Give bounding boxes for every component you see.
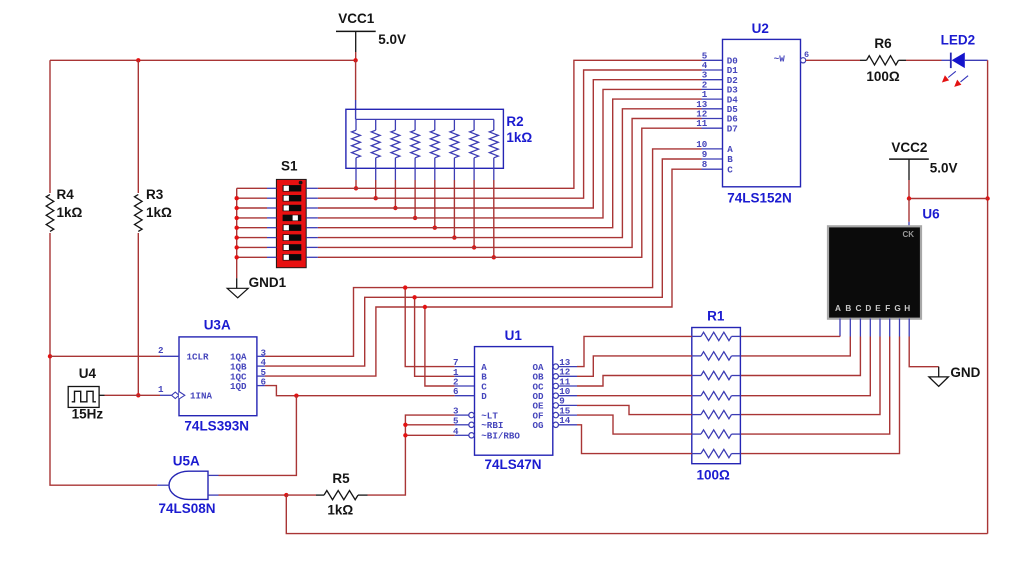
ground GND1: [227, 278, 248, 298]
pin stub S1 left 3: [267, 207, 276, 209]
pin stub U3A 1QC: [257, 375, 265, 377]
svg-text:5.0V: 5.0V: [378, 32, 406, 47]
svg-text:~BI/RBO: ~BI/RBO: [481, 431, 520, 442]
wire net D2 row to U2 pin: [318, 80, 702, 208]
svg-text:C: C: [855, 304, 861, 313]
junction R4 / 1CLR net: [48, 354, 52, 358]
svg-text:R5: R5: [332, 471, 350, 486]
wire net D4 row to U2 pin: [318, 99, 702, 228]
pin stub U1 ~LT: [455, 414, 469, 416]
wire S1 ground bus: [236, 188, 238, 278]
junction R5 node / bottom rail: [284, 493, 288, 497]
wire bottom rail to LED return: [286, 495, 987, 533]
junction R2 col 1 on row 1: [354, 186, 358, 190]
svg-text:U3A: U3A: [204, 318, 231, 333]
wire S1 left pin 8 to ground bus: [237, 256, 267, 258]
pin stub U2 D2: [702, 79, 723, 81]
svg-text:1kΩ: 1kΩ: [327, 503, 353, 518]
output bubble pin 6 of U2: [801, 58, 806, 63]
pin stub U3A 1QB: [257, 365, 265, 367]
wire LED2 return down right edge: [987, 60, 989, 533]
svg-text:100Ω: 100Ω: [866, 69, 900, 84]
junction ground bus row 6: [235, 235, 239, 239]
pin stub S1 right 2: [306, 197, 318, 199]
op-amp U2 74LS152N multiplexer body: [723, 39, 801, 186]
wire branch to U1 ~BI/RBO: [405, 434, 454, 436]
svg-text:U1: U1: [505, 328, 523, 343]
svg-text:VCC2: VCC2: [891, 140, 927, 155]
svg-text:1kΩ: 1kΩ: [57, 205, 83, 220]
pin stub U1 OD: [559, 395, 578, 397]
wire clock net U4 to U3A: [105, 394, 161, 396]
svg-text:74LS152N: 74LS152N: [727, 190, 792, 205]
output bubble pin 15 of U1: [553, 412, 558, 417]
svg-text:VCC1: VCC1: [338, 11, 375, 26]
pin stub S1 right 5: [306, 227, 318, 229]
junction right edge / VCC2 rail: [985, 196, 989, 200]
junction ~RBI branch: [403, 423, 407, 427]
pin stub U2 D1: [702, 69, 723, 71]
svg-text:B: B: [845, 304, 851, 313]
clock edge symbol pin 1INA of U3A: [172, 392, 185, 400]
junction ground bus row 3: [235, 206, 239, 210]
junction R2 col 8 on row 8: [492, 255, 496, 259]
pin stub U1 OE: [559, 404, 578, 406]
svg-text:1QD: 1QD: [230, 381, 247, 392]
input bubble pin 4 of U1: [469, 433, 474, 438]
junction select B branch: [412, 295, 416, 299]
svg-text:D: D: [481, 391, 487, 402]
pin stub U6 F: [889, 319, 891, 337]
power symbol VCC1: [336, 31, 376, 52]
wire S1 left pin 6 to ground bus: [237, 237, 267, 239]
wire R2 column 6 to bus row 6: [453, 180, 455, 238]
junction ground bus row 7: [235, 245, 239, 249]
output bubble pin 14 of U1: [553, 422, 558, 427]
wire U1 OD to R1 row 4: [577, 395, 692, 397]
junction R2 col 5 on row 5: [433, 226, 437, 230]
svg-text:1INA: 1INA: [190, 391, 213, 402]
op-amp U3A 74LS393N counter body: [179, 337, 257, 416]
wire net D3 row to U2 pin: [318, 89, 702, 218]
wire U1 OC to R1 row 3: [577, 376, 692, 387]
svg-text:8: 8: [702, 159, 708, 170]
svg-text:CK: CK: [902, 230, 914, 239]
wire R6 to LED2: [906, 59, 942, 61]
wire R3 top lead: [137, 60, 139, 193]
resistor R4 1k: [46, 195, 54, 232]
svg-text:1CLR: 1CLR: [187, 352, 210, 363]
wire U6 F to R1 row 6: [740, 337, 889, 435]
display U6 seven-segment: [828, 226, 921, 318]
input bubble pin 5 of U1: [469, 422, 474, 427]
output bubble pin 11 of U1: [553, 383, 558, 388]
svg-text:E: E: [875, 304, 881, 313]
svg-text:U6: U6: [922, 207, 940, 222]
pin stub U2 A: [702, 148, 723, 150]
svg-text:U4: U4: [79, 366, 97, 381]
pin stub S1 right 4: [306, 217, 318, 219]
svg-text:~W: ~W: [774, 54, 786, 65]
wire net D0 row to U2 pin: [318, 60, 702, 188]
junction R2 col 2 on row 2: [374, 196, 378, 200]
svg-text:D7: D7: [727, 123, 738, 134]
pin stub U5A input 2: [208, 494, 219, 496]
svg-text:100Ω: 100Ω: [697, 467, 731, 482]
svg-text:1: 1: [158, 384, 164, 395]
pin stub S1 left 2: [267, 197, 276, 199]
wire VCC1 rail to R4/R3: [50, 59, 356, 61]
pin stub U3A 1QA: [257, 355, 265, 357]
pin stub S1 right 3: [306, 207, 318, 209]
wire 1QD branch down to U5A input: [219, 396, 297, 476]
op-amp U1 74LS47N decoder body: [475, 347, 553, 456]
svg-text:LED2: LED2: [941, 33, 976, 48]
svg-text:H: H: [904, 304, 910, 313]
output bubble pin 9 of U1: [553, 403, 558, 408]
wire U1 OA to R1 row 1: [577, 336, 692, 366]
svg-text:R4: R4: [57, 187, 75, 202]
pin stub U5A input 1: [208, 474, 219, 476]
pin stub S1 left 6: [267, 237, 276, 239]
pin stub S1 right 7: [306, 246, 318, 248]
wire U1 OF to R1 row 6: [577, 415, 692, 434]
junction VCC2 stem / CK: [907, 196, 911, 200]
wire branch select C down to U1 C: [425, 307, 455, 386]
pin stub S1 left 8: [267, 256, 276, 258]
wire R2 column 3 to bus row 3: [394, 180, 396, 208]
junction ground bus row 5: [235, 226, 239, 230]
svg-text:R6: R6: [874, 36, 892, 51]
pin stub S1 left 5: [267, 227, 276, 229]
wire net select A from U3A 1QA to U2: [265, 149, 702, 356]
junction VCC1 stem on rail: [353, 58, 357, 62]
pin stub LED2 anode: [942, 59, 951, 61]
junction select C branch: [423, 305, 427, 309]
svg-text:R2: R2: [506, 114, 523, 129]
pin stub U1 OF: [559, 414, 578, 416]
wire net D1 row to U2 pin: [318, 70, 702, 198]
wire S1 left pin 1 to ground bus: [237, 187, 267, 189]
AND gate U5A 74LS08N (mirrored): [169, 471, 208, 499]
pin stub U1 C: [455, 385, 475, 387]
wire VCC1 down to R2: [355, 60, 357, 100]
pin stub U1 B: [455, 375, 475, 377]
wire 1CLR net from R4 junction: [50, 355, 160, 357]
svg-text:11: 11: [696, 118, 708, 129]
pin stub S1 right 1: [306, 187, 318, 189]
pin stub U2 B: [702, 158, 723, 160]
wire U2 ~W to R6: [806, 59, 860, 61]
wire CK net down to U6: [908, 199, 910, 222]
wire S1 left pin 7 to ground bus: [237, 246, 267, 248]
wire pin stub into R2: [355, 100, 357, 119]
svg-text:C: C: [727, 164, 733, 175]
wire branch to U1 ~RBI: [405, 424, 454, 426]
resistor R3 1k: [135, 195, 143, 232]
wire R4 bottom to U5A output: [50, 233, 157, 485]
wire R5 right up to U1 ~LT: [368, 415, 455, 495]
svg-text:74LS393N: 74LS393N: [184, 418, 249, 433]
svg-text:D: D: [865, 304, 871, 313]
wire R2 column 5 to bus row 5: [434, 180, 436, 228]
pin stub U1 OG: [559, 424, 578, 426]
svg-text:S1: S1: [281, 159, 298, 174]
junction R2 col 3 on row 3: [393, 206, 397, 210]
pin stub U1 OB: [559, 375, 578, 377]
pin stub U2 D6: [702, 118, 723, 120]
svg-text:5.0V: 5.0V: [930, 161, 958, 176]
switch S1 (8x DIP): [276, 179, 306, 267]
pin stub U1 ~BI/RBO: [455, 434, 469, 436]
svg-text:U5A: U5A: [173, 453, 200, 468]
junction ground bus row 8: [235, 255, 239, 259]
pin stub U2 D7: [702, 127, 723, 129]
svg-text:GND: GND: [950, 365, 980, 380]
pin stub U5A output: [157, 484, 169, 486]
svg-text:A: A: [835, 304, 841, 313]
pin stub S1 right 6: [306, 237, 318, 239]
junction R3 / clock net: [136, 393, 140, 397]
pin stub U3A 1QD: [257, 385, 265, 387]
svg-text:GND1: GND1: [249, 275, 287, 290]
svg-text:G: G: [894, 304, 900, 313]
wire VCC1 stem: [355, 52, 357, 60]
pin stub U6 G: [899, 319, 901, 337]
wire node to R5 left lead: [286, 494, 316, 496]
wire U6 G to R1 row 7: [740, 337, 899, 454]
svg-text:F: F: [885, 304, 890, 313]
ground GND: [929, 367, 949, 387]
junction ground bus row 2: [235, 196, 239, 200]
pin stub U1 A: [455, 366, 475, 368]
wire VCC2 stem: [908, 180, 910, 199]
junction select A branch: [403, 285, 407, 289]
wire net D5 row to U2 pin: [318, 109, 702, 238]
pin stub S1 left 4: [267, 217, 276, 219]
pin stub S1 left 7: [267, 246, 276, 248]
output bubble pin 13 of U1: [553, 364, 558, 369]
pin stub U3A 1INA: [160, 394, 171, 396]
wire R3 bottom to clock net: [137, 233, 139, 395]
junction 1QD branch to U5A: [294, 394, 298, 398]
pin stub U2 D3: [702, 88, 723, 90]
junction R2 col 6 on row 6: [452, 235, 456, 239]
junction R2 col 4 on row 4: [413, 216, 417, 220]
svg-text:R1: R1: [707, 309, 725, 324]
wire R4 top lead: [49, 60, 51, 193]
junction R2 col 7 on row 7: [472, 245, 476, 249]
pin stub U4 output: [99, 394, 104, 396]
junction ground bus row 4: [235, 216, 239, 220]
wire branch select B down to U1 B: [415, 297, 455, 376]
wire U1 OE to R1 row 5: [577, 405, 692, 414]
pin stub U6 A: [839, 319, 841, 337]
svg-text:~RBI: ~RBI: [481, 420, 503, 431]
svg-text:15Hz: 15Hz: [72, 407, 104, 422]
pin stub LED2 cathode: [965, 59, 988, 61]
svg-text:74LS47N: 74LS47N: [484, 457, 541, 472]
pin stub U1 OA: [559, 366, 578, 368]
output bubble pin 12 of U1: [553, 374, 558, 379]
pin stub U6 D: [869, 319, 871, 337]
pin stub U2 C: [702, 168, 723, 170]
clock source U4 15Hz: [68, 387, 99, 408]
wire R2 column 2 to bus row 2: [375, 180, 377, 198]
wire U6 C to R1 row 3: [740, 337, 860, 376]
svg-text:2: 2: [158, 345, 164, 356]
power symbol VCC2: [889, 159, 929, 180]
svg-text:R3: R3: [146, 187, 164, 202]
svg-text:U2: U2: [752, 21, 769, 36]
wire U6 H to GND: [909, 337, 939, 367]
pin stub S1 left 1: [267, 187, 276, 189]
wire R2 column 7 to bus row 7: [473, 180, 475, 247]
wire R2 column 1 to bus row 1: [355, 180, 357, 188]
junction ~BI/RBO branch: [403, 433, 407, 437]
LED LED2: [942, 53, 968, 87]
wire net select C from U3A 1QC to U2: [265, 169, 702, 376]
pin stub S1 right 8: [306, 256, 318, 258]
pin stub U1 D: [455, 395, 475, 397]
svg-text:OG: OG: [532, 420, 544, 431]
pin stub U1 OC: [559, 385, 578, 387]
wire S1 left pin 2 to ground bus: [237, 197, 267, 199]
pin stub U2 D4: [702, 98, 723, 100]
resistor R5 1k: [316, 491, 368, 500]
pin stub U2 D5: [702, 108, 723, 110]
pin stub U6 B: [849, 319, 851, 337]
wire 1QD to U1 D input: [265, 386, 455, 396]
pin stub U2 D0: [702, 59, 723, 61]
wire S1 left pin 5 to ground bus: [237, 227, 267, 229]
svg-text:1kΩ: 1kΩ: [506, 130, 532, 145]
pin stub U6 C: [859, 319, 861, 337]
svg-text:6: 6: [804, 50, 809, 60]
wire U1 OG to R1 row 7: [577, 425, 692, 454]
wire R2 column 8 to bus row 8: [493, 180, 495, 257]
wire S1 left pin 3 to ground bus: [237, 207, 267, 209]
wire U6 E to R1 row 5: [740, 337, 880, 415]
wire U5A input 2 to R5 node: [219, 494, 287, 496]
wire net D6 row to U2 pin: [318, 119, 702, 248]
wire U6 A to R1 row 1: [740, 335, 840, 337]
resistor network R1 100 ohm (7 resistors): [692, 328, 741, 464]
input bubble pin 3 of U1: [469, 412, 474, 417]
svg-text:74LS08N: 74LS08N: [158, 501, 215, 516]
wire S1 left pin 4 to ground bus: [237, 217, 267, 219]
pin stub U6 E: [879, 319, 881, 337]
wire R2 column 4 to bus row 4: [414, 180, 416, 218]
output bubble pin 10 of U1: [553, 393, 558, 398]
wire U6 B to R1 row 2: [740, 337, 850, 356]
wire net select B from U3A 1QB to U2: [265, 159, 702, 366]
pin stub U1 ~RBI: [455, 424, 469, 426]
wire VCC2 rail to LED return: [909, 198, 988, 200]
svg-text:1kΩ: 1kΩ: [146, 205, 172, 220]
resistor network R2 1k (8 resistors): [346, 109, 504, 180]
wire branch select A down to U1 A: [405, 288, 454, 367]
pin stub U6 CK: [908, 222, 910, 228]
resistor R6 100 ohm: [860, 56, 906, 65]
junction R3 top on VCC rail: [136, 58, 140, 62]
pin stub U6 H: [908, 319, 910, 337]
pin stub U3A 1CLR: [160, 355, 179, 357]
wire U1 OB to R1 row 2: [577, 356, 692, 376]
wire U6 D to R1 row 4: [740, 337, 870, 396]
wire net D7 row to U2 pin: [318, 128, 702, 257]
